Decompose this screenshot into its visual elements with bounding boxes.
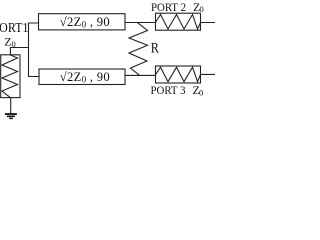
- svg-text:0: 0: [200, 4, 204, 14]
- wire TL2 to port3 resistor: [125, 74, 156, 76]
- svg-text:R: R: [151, 41, 159, 57]
- svg-text:PORT 2: PORT 2: [151, 0, 186, 14]
- transmission line box TL2 (sqrt2 Z0, 90) bottom: [39, 69, 125, 85]
- svg-text:PORT 3: PORT 3: [151, 83, 186, 97]
- wire port2 output: [201, 22, 216, 24]
- wire TL1 to port2 resistor: [125, 22, 156, 24]
- resistor R isolation zigzag: [129, 23, 148, 75]
- svg-text:PORT1: PORT1: [0, 20, 29, 35]
- resistor port3 termination zigzag: [156, 67, 201, 82]
- resistor port2 termination box: [156, 13, 201, 30]
- resistor Z0 load zigzag: [2, 55, 18, 97]
- wire ground stub: [10, 98, 12, 114]
- wire Z0 load branch: [10, 48, 28, 56]
- ground: [5, 114, 17, 118]
- wire port3 output: [201, 73, 216, 75]
- transmission line box TL1 (sqrt2 Z0, 90) top: [39, 14, 126, 30]
- wire port1 bus vertical: [29, 23, 40, 77]
- svg-text:0: 0: [199, 87, 203, 97]
- resistor Z0 load box (port 1 termination): [1, 55, 20, 98]
- resistor port2 termination zigzag: [156, 15, 201, 30]
- resistor port3 termination box: [156, 66, 201, 83]
